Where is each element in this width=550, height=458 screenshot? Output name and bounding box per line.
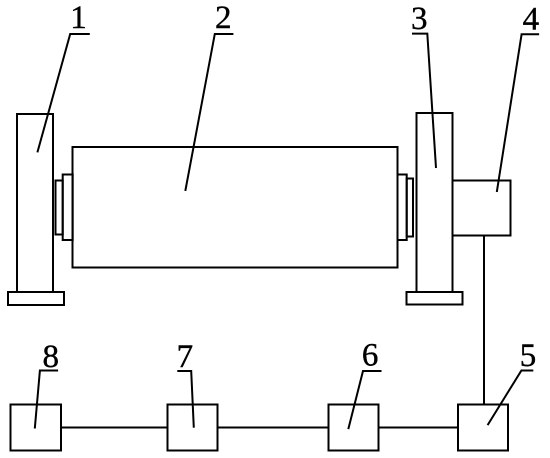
wire from 4 to 5 <box>483 236 485 405</box>
svg-text:7: 7 <box>177 339 194 375</box>
left support stand 1 <box>17 114 53 292</box>
svg-text:2: 2 <box>215 0 232 36</box>
svg-text:4: 4 <box>523 2 540 38</box>
roller drum 2 <box>73 147 398 268</box>
leader line label 4 <box>497 34 539 192</box>
box 8 <box>11 405 62 451</box>
right support stand 3 <box>417 113 453 292</box>
wire 6 to 5 <box>379 427 459 429</box>
left shaft stub <box>56 181 63 235</box>
sensor box 4 <box>453 181 511 236</box>
box 6 <box>329 405 379 451</box>
svg-text:5: 5 <box>520 338 537 374</box>
box 5 <box>458 405 508 451</box>
wire 7 to 6 <box>218 427 329 429</box>
leader line label 2 <box>185 34 233 191</box>
svg-text:8: 8 <box>43 339 60 375</box>
leader line label 8 <box>35 371 58 429</box>
svg-text:1: 1 <box>70 0 87 36</box>
leader line label 3 <box>412 34 436 168</box>
leader line label 7 <box>177 371 194 428</box>
right stand base <box>407 292 463 305</box>
leader line label 5 <box>488 371 534 426</box>
right shaft step <box>398 175 407 241</box>
svg-text:6: 6 <box>362 337 379 373</box>
wire 8 to 7 <box>61 427 168 429</box>
svg-text:3: 3 <box>411 1 428 37</box>
left shaft step <box>63 175 73 241</box>
leader line label 1 <box>37 34 89 152</box>
leader line label 6 <box>348 371 381 429</box>
box 7 <box>168 405 218 451</box>
left stand base <box>8 292 64 305</box>
right shaft stub <box>407 179 413 237</box>
